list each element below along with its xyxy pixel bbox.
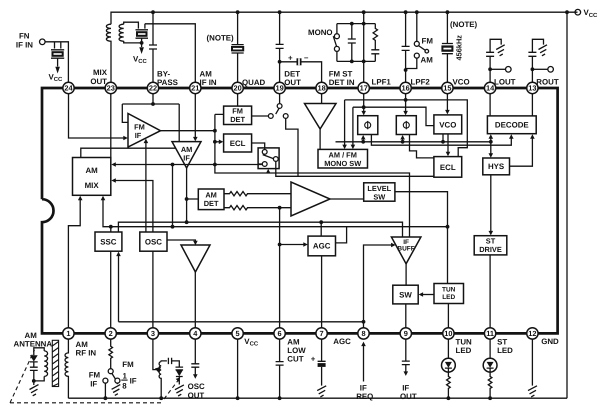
wire OSC to buffer [167, 240, 195, 241]
ceramic filter F1 [51, 50, 64, 67]
wire selector right contact down [276, 161, 434, 176]
wire coil bottom to node [34, 376, 44, 381]
det out cap C19 [276, 12, 284, 82]
svg-text:15: 15 [443, 84, 451, 93]
node rail-vcc drop [565, 10, 569, 14]
block ECL right [434, 157, 462, 178]
wire FM IF out [161, 130, 215, 132]
wire SW to pin9 [405, 304, 407, 328]
pin 12 [527, 328, 538, 339]
svg-text:ECL: ECL [230, 139, 246, 148]
wire ST DRIVE to pin11 [489, 255, 491, 328]
node AGC branch [278, 243, 282, 247]
wire AM DET out upper [224, 192, 291, 196]
svg-text:5: 5 [236, 329, 240, 338]
node rail pin17 [362, 10, 366, 14]
arrow bus to phi2 [402, 139, 404, 142]
block LEVEL SW [364, 183, 395, 202]
wire line A pin16 to mono sw and ECL [345, 100, 468, 157]
arrow if req into pin8 [363, 346, 365, 382]
pin 5 [232, 328, 243, 339]
svg-text:LPF1: LPF1 [372, 78, 392, 87]
svg-text:AM: AM [421, 56, 434, 65]
transformer T1 primary [106, 24, 111, 82]
bus B1 [118, 222, 402, 237]
svg-text:IF: IF [130, 376, 137, 385]
svg-text:9: 9 [404, 329, 408, 338]
amp OSC buffer [181, 245, 210, 272]
wire to AGC [280, 244, 304, 246]
wire AGC top riser [320, 222, 322, 236]
pin 23 [105, 82, 116, 93]
pin 9 [400, 328, 411, 339]
wire phi1 out to DECODE [371, 135, 511, 146]
svg-text:OUT: OUT [90, 77, 107, 86]
svg-text:SW: SW [399, 291, 412, 300]
pin 15 [442, 82, 453, 93]
block VCO [434, 115, 462, 134]
node am det lower pin6 [278, 206, 282, 210]
wire OSC to FM IF [145, 142, 147, 232]
svg-text:OSC: OSC [145, 238, 162, 247]
wire AM MIX top [81, 148, 176, 157]
svg-text:TUN: TUN [442, 286, 456, 293]
switch det out S3 [268, 94, 288, 119]
wire pin13 to DECODE [531, 94, 533, 116]
amp AM IF [172, 142, 201, 168]
svg-text:PASS: PASS [157, 78, 178, 87]
wire TUN LED to pin10 [447, 304, 449, 328]
wire coil top to varactor [34, 348, 44, 355]
wire SSC to pin2 [110, 251, 112, 328]
mono switch S1 [333, 24, 339, 62]
wire pin16 to phi2 [405, 94, 407, 112]
wire FM DET to switch [252, 115, 269, 117]
node pin19 electro [278, 60, 282, 64]
wire FM DET column [215, 114, 410, 237]
svg-text:2: 2 [109, 329, 113, 338]
node fmdet col [213, 129, 217, 133]
ceramic filter F2 [136, 24, 149, 47]
svg-text:DET: DET [230, 115, 245, 124]
node rail pin22 [151, 10, 155, 14]
lout ground [496, 45, 505, 56]
wire AM MIX upper input [116, 164, 262, 166]
wire pin12 gnd [531, 339, 533, 386]
pin 4 [190, 328, 201, 339]
wire pin23 to AM MIX [110, 94, 112, 158]
wire AGC to pin7 [321, 256, 323, 328]
wire pin14 to DECODE [489, 94, 491, 116]
svg-text:FN: FN [19, 32, 30, 41]
svg-text:6: 6 [278, 329, 282, 338]
pin 22 [147, 82, 158, 93]
arrow if out [404, 371, 409, 376]
pin 20 [232, 82, 243, 93]
wire filter input stub [54, 42, 56, 49]
svg-text:IF: IF [135, 131, 142, 140]
wire switch AM side down [286, 118, 298, 176]
cap C9 [402, 339, 410, 372]
st led indicator [483, 339, 497, 398]
svg-text:VCC: VCC [244, 337, 259, 348]
node rout [531, 67, 535, 71]
wire pin5 to rail [237, 339, 239, 398]
rout terminal [532, 68, 547, 70]
pin 24 [63, 82, 74, 93]
svg-text:AM: AM [25, 331, 38, 340]
block ST DRIVE [474, 236, 507, 255]
vco resonator X15 456kHz [441, 12, 453, 82]
svg-text:AM: AM [85, 166, 98, 175]
wire pin24 to FM IF [69, 94, 124, 138]
svg-text:DECODE: DECODE [495, 121, 529, 130]
pin 3 [147, 328, 158, 339]
svg-text:OSC: OSC [188, 382, 205, 391]
transformer T1 secondary [119, 24, 124, 41]
wire AM MIX bottom right from SSC [103, 200, 111, 232]
wire selector left contact [258, 163, 262, 165]
quad resonator X20 [231, 12, 244, 82]
svg-text:22: 22 [149, 84, 157, 93]
svg-text:LED: LED [442, 294, 455, 301]
node tank rail [159, 396, 163, 400]
amp IF BUFF [391, 237, 421, 264]
series cap C3 [161, 358, 179, 367]
wire T1 sec bottom to gnd node [124, 41, 142, 43]
block AM DET [198, 189, 224, 210]
svg-text:17: 17 [360, 84, 368, 93]
pin 16 [400, 82, 411, 93]
svg-text:OUT: OUT [284, 78, 301, 87]
wire pin8 to IF BUFF [364, 245, 392, 322]
node pin16 am sw [404, 68, 408, 72]
block AM/FM MONO SW [318, 149, 368, 168]
wire terminal to pin24 [45, 42, 68, 83]
block ECL left [224, 134, 252, 152]
pin 18 [316, 82, 327, 93]
block DECODE [487, 116, 536, 134]
svg-text:11: 11 [486, 329, 494, 338]
pin 13 [527, 82, 538, 93]
dashed gang outline bottom [10, 402, 163, 404]
electrolytic C7 [311, 339, 326, 386]
svg-text:MIX: MIX [93, 68, 108, 77]
mono resistor R17 [371, 24, 379, 62]
svg-text:10: 10 [444, 329, 452, 338]
wire pin21 to AM IF [194, 94, 196, 138]
svg-text:QUAD: QUAD [242, 78, 266, 87]
svg-text:CUT: CUT [287, 354, 303, 363]
pin12 ground [528, 386, 537, 397]
svg-text:DET: DET [204, 199, 219, 208]
bus PLL y141.8 [336, 141, 491, 143]
switch fm-if S4 [103, 369, 120, 399]
VCC terminal top right [575, 9, 581, 15]
node F2 ground [140, 41, 144, 45]
node mono pin17 top [362, 22, 366, 26]
lout terminal [490, 68, 505, 70]
switch ground [112, 385, 121, 396]
wire pin8 to SSC [119, 256, 364, 328]
wire pin22 feedback [122, 94, 179, 142]
svg-text:GND: GND [541, 337, 559, 346]
varactor diode D1 [30, 355, 38, 385]
wire LEVEL SW to TUN LED [395, 192, 448, 284]
block TUN LED [434, 284, 464, 304]
svg-text:OUT: OUT [188, 391, 205, 400]
dashed gang outline left [10, 350, 35, 403]
block OSC [140, 232, 167, 251]
svg-text:21: 21 [191, 84, 199, 93]
svg-text:LED: LED [497, 346, 513, 355]
svg-text:+: + [311, 354, 316, 363]
svg-text:IF: IF [360, 383, 367, 392]
dashed gang arrow tank [164, 381, 178, 400]
block AGC [308, 236, 336, 256]
wire VCO to ECL [447, 134, 449, 153]
svg-text:AM: AM [76, 340, 89, 349]
pin 11 [484, 328, 495, 339]
wire AM DET out lower [224, 206, 291, 210]
mono cap C17a [348, 24, 356, 62]
wire VCO to PLL bus [442, 134, 444, 142]
block FM DET [224, 106, 252, 124]
svg-text:LED: LED [456, 346, 472, 355]
pin 1 [63, 328, 74, 339]
block SW [393, 285, 418, 304]
wire TUN LED to SW [423, 294, 435, 296]
varactor D3 [176, 367, 184, 384]
node lout [488, 67, 492, 71]
svg-text:AGC: AGC [333, 337, 351, 346]
antenna coupling coil to pin1 [65, 339, 68, 398]
svg-text:IF: IF [183, 153, 190, 162]
svg-text:1: 1 [66, 329, 70, 338]
svg-text:ANTENNA: ANTENNA [14, 340, 53, 349]
pin7 ground [317, 386, 326, 397]
svg-text:REQ: REQ [356, 392, 373, 401]
svg-text:MONO SW: MONO SW [324, 159, 361, 168]
svg-text:ECL: ECL [440, 163, 456, 172]
svg-text:FM: FM [89, 371, 101, 380]
svg-text:VCC: VCC [584, 8, 599, 19]
mono net bottom wire [337, 60, 375, 62]
svg-text:24: 24 [64, 84, 73, 93]
resistor R2 below pin2 [109, 339, 113, 369]
svg-text:DET IN: DET IN [329, 78, 355, 87]
tank ground [175, 385, 184, 396]
svg-text:MONO: MONO [308, 28, 333, 37]
bypass cap C22 [149, 12, 157, 82]
riser to bus B2 [172, 165, 174, 227]
arrow osc out [193, 374, 198, 379]
bottom VCC return rail [68, 397, 567, 399]
svg-text:(NOTE): (NOTE) [450, 20, 478, 29]
node fm-if rail [104, 396, 108, 400]
pin 21 [190, 82, 201, 93]
osc out cap C4 [191, 339, 199, 375]
svg-text:FM: FM [122, 360, 134, 369]
svg-text:3: 3 [151, 329, 155, 338]
wire pin15 to VCO [446, 94, 448, 111]
ferrite core [52, 340, 58, 386]
lpf2 cap C16 [402, 12, 410, 82]
node rail pin19 [278, 10, 282, 14]
svg-text:IF: IF [90, 379, 97, 388]
svg-text:18: 18 [317, 84, 325, 93]
mono net top wire [337, 23, 375, 25]
svg-text:8: 8 [122, 381, 127, 390]
svg-text:IF IN: IF IN [16, 41, 33, 50]
arrow to VCC (F2) [139, 47, 144, 54]
node rail fm-am switch [415, 10, 419, 14]
block phi detector 2 [396, 116, 416, 135]
wire bus to DECODE and HYS [490, 138, 492, 154]
node rail pin15 [446, 10, 450, 14]
arrow bus to phi1 [362, 139, 364, 142]
svg-text:LOUT: LOUT [494, 78, 516, 87]
pin 7 [316, 328, 327, 339]
variable coil arrowhead [155, 367, 161, 373]
wire AM MIX bottom left from pin1 [68, 200, 80, 328]
svg-text:19: 19 [275, 84, 283, 93]
node mono caps [350, 22, 354, 26]
wire selector bottom arrow [267, 172, 269, 173]
wire buffer to pin4 [194, 272, 196, 328]
node rail pin16 [404, 10, 408, 14]
bus B2 [111, 226, 448, 228]
rout cap C13 [528, 39, 543, 82]
rout ground [539, 45, 548, 56]
node rail pin20 [236, 10, 240, 14]
svg-text:AGC: AGC [313, 242, 331, 251]
wire ECL left to selector [252, 143, 265, 149]
svg-text:456kHz: 456kHz [455, 35, 464, 61]
amp FM IF [128, 114, 161, 148]
svg-text:–: – [304, 53, 309, 62]
block phi detector 1 [358, 116, 378, 135]
svg-text:OUT: OUT [400, 392, 417, 401]
svg-text:20: 20 [233, 84, 241, 93]
svg-text:SW: SW [373, 192, 385, 201]
wire HYS to ST DRIVE [490, 175, 492, 232]
svg-text:1: 1 [123, 371, 128, 380]
wire T1 sec top to F2 [124, 22, 139, 28]
electrolytic C18 [280, 53, 322, 82]
wire phi2 to ECL staircase [410, 135, 434, 158]
pin 6 [274, 328, 285, 339]
pin 17 [358, 82, 369, 93]
op-amp decoder [291, 182, 330, 216]
wire IF BUFF to SW [405, 264, 407, 285]
top VCC rail [111, 12, 578, 24]
terminal FN IF IN [40, 39, 46, 45]
svg-text:IF: IF [402, 383, 409, 392]
svg-text:14: 14 [486, 84, 495, 93]
svg-text:VCC: VCC [133, 55, 148, 66]
svg-text:VCO: VCO [439, 121, 456, 130]
tank coil L3 [159, 362, 161, 399]
IC body outline with notch [42, 88, 558, 333]
svg-text:MIX: MIX [85, 181, 100, 190]
wire pin20 to FM DET [237, 94, 239, 106]
pin 2 [105, 328, 116, 339]
svg-text:VCO: VCO [453, 78, 470, 87]
wire to ECL left [215, 141, 219, 143]
svg-text:BUFF: BUFF [397, 245, 414, 252]
wire opamp out to LEVEL SW [330, 198, 364, 200]
svg-text:+: + [288, 54, 293, 63]
wire AM IF out to AM DET [187, 168, 199, 222]
wire AGC right riser [336, 227, 347, 243]
selector switch box [258, 148, 279, 169]
wire line B pin17 to mono sw and vco [353, 107, 434, 145]
block AM MIX [73, 158, 111, 196]
svg-text:HYS: HYS [488, 162, 504, 171]
svg-text:8: 8 [361, 329, 365, 338]
svg-text:23: 23 [107, 84, 115, 93]
svg-text:16: 16 [401, 84, 409, 93]
svg-text:ROUT: ROUT [536, 78, 559, 87]
svg-text:12: 12 [528, 329, 536, 338]
wire AM MIX lower input from pin3 col [116, 181, 153, 328]
pin 19 [274, 82, 285, 93]
block HYS [483, 158, 510, 175]
antenna primary coil [44, 351, 47, 377]
fm-am switch S2 [406, 12, 429, 68]
svg-text:SSC: SSC [100, 238, 117, 247]
wire pin18 buffer to MONO SW [320, 94, 322, 150]
node antenna gnd [32, 379, 36, 383]
wire pin17 to phi1 [363, 94, 365, 112]
cap C6 low cut [276, 339, 284, 398]
svg-text:FM: FM [422, 37, 434, 46]
svg-text:IF IN: IF IN [200, 78, 217, 87]
svg-text:7: 7 [320, 329, 324, 338]
VCC line right side [566, 12, 568, 398]
wire F2 out to pin21 [145, 24, 195, 83]
wire HYS to DECODE [510, 138, 533, 166]
pin17 column [363, 12, 365, 82]
pin 10 [443, 328, 454, 339]
pin 8 [358, 328, 369, 339]
antenna ground [30, 385, 39, 396]
svg-text:LPF2: LPF2 [411, 78, 431, 87]
amp FM ST buffer [305, 104, 337, 130]
svg-text:(NOTE): (NOTE) [207, 34, 235, 43]
svg-text:DRIVE: DRIVE [479, 245, 502, 254]
pin 14 [484, 82, 495, 93]
wire pin3 to tank [153, 339, 158, 370]
svg-text:RF IN: RF IN [76, 349, 97, 358]
wire pin6 column [279, 208, 281, 328]
block SSC [95, 232, 122, 251]
arrow to VCC (F1) [55, 67, 60, 74]
tun led indicator [442, 339, 456, 398]
lout cap C14 [486, 39, 501, 82]
svg-text:VCC: VCC [49, 73, 64, 84]
svg-text:13: 13 [528, 84, 536, 93]
node feedback pin22 [151, 102, 155, 106]
